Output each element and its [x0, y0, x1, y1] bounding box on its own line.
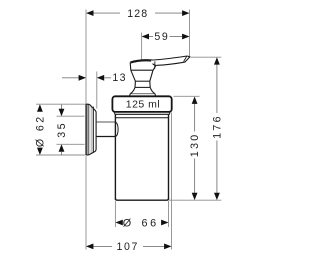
- dimension 130: [189, 97, 201, 201]
- dimension 59: [142, 31, 190, 43]
- dimension diameter 66: [115, 217, 168, 229]
- mounting arm: [96, 122, 118, 137]
- wire extension line wall bottom: [85, 156, 87, 250]
- svg-text:35: 35: [56, 121, 68, 138]
- wire extension line collar top right: [174, 95, 200, 97]
- svg-text:Ø: Ø: [123, 217, 132, 229]
- pump body: [130, 60, 157, 96]
- svg-text:13: 13: [112, 72, 127, 84]
- wire extension line lever tip vertical: [189, 10, 191, 58]
- wire extension line bottle right down: [168, 201, 170, 227]
- svg-text:Ø 62: Ø 62: [35, 115, 47, 148]
- pump lever: [151, 56, 190, 69]
- dimension 107: [86, 241, 172, 253]
- svg-text:130: 130: [189, 133, 201, 158]
- dimension diameter 62: [35, 104, 47, 155]
- svg-text:176: 176: [212, 114, 224, 139]
- wall plate escutcheon: [86, 104, 96, 155]
- wire extension line lever tip right: [191, 56, 222, 58]
- wire extension line hub bottom: [57, 143, 85, 145]
- dimension 35: [56, 105, 68, 156]
- svg-text:128: 128: [127, 8, 148, 20]
- svg-text:125 ml: 125 ml: [126, 99, 161, 111]
- svg-text:59: 59: [154, 31, 169, 43]
- bottle collar: [112, 96, 171, 112]
- wire extension line collar front down: [171, 113, 173, 250]
- svg-text:66: 66: [141, 217, 158, 229]
- dimension 128: [86, 8, 189, 20]
- wire extension line pump cap: [141, 33, 143, 61]
- bottle lip: [115, 112, 170, 114]
- wire extension line bottle bottom right: [169, 199, 221, 201]
- dimension 13: [62, 72, 127, 84]
- wire extension line hub top: [57, 115, 85, 117]
- wire extension line plate top left: [36, 103, 86, 105]
- wire extension line plate bottom left: [36, 154, 86, 156]
- wire extension line wall top: [85, 10, 87, 105]
- wire extension line bottle left down: [114, 201, 116, 227]
- svg-text:107: 107: [117, 241, 139, 253]
- bottle body: [115, 114, 168, 200]
- dimension 176: [212, 57, 224, 200]
- wire extension line plate front: [96, 72, 98, 109]
